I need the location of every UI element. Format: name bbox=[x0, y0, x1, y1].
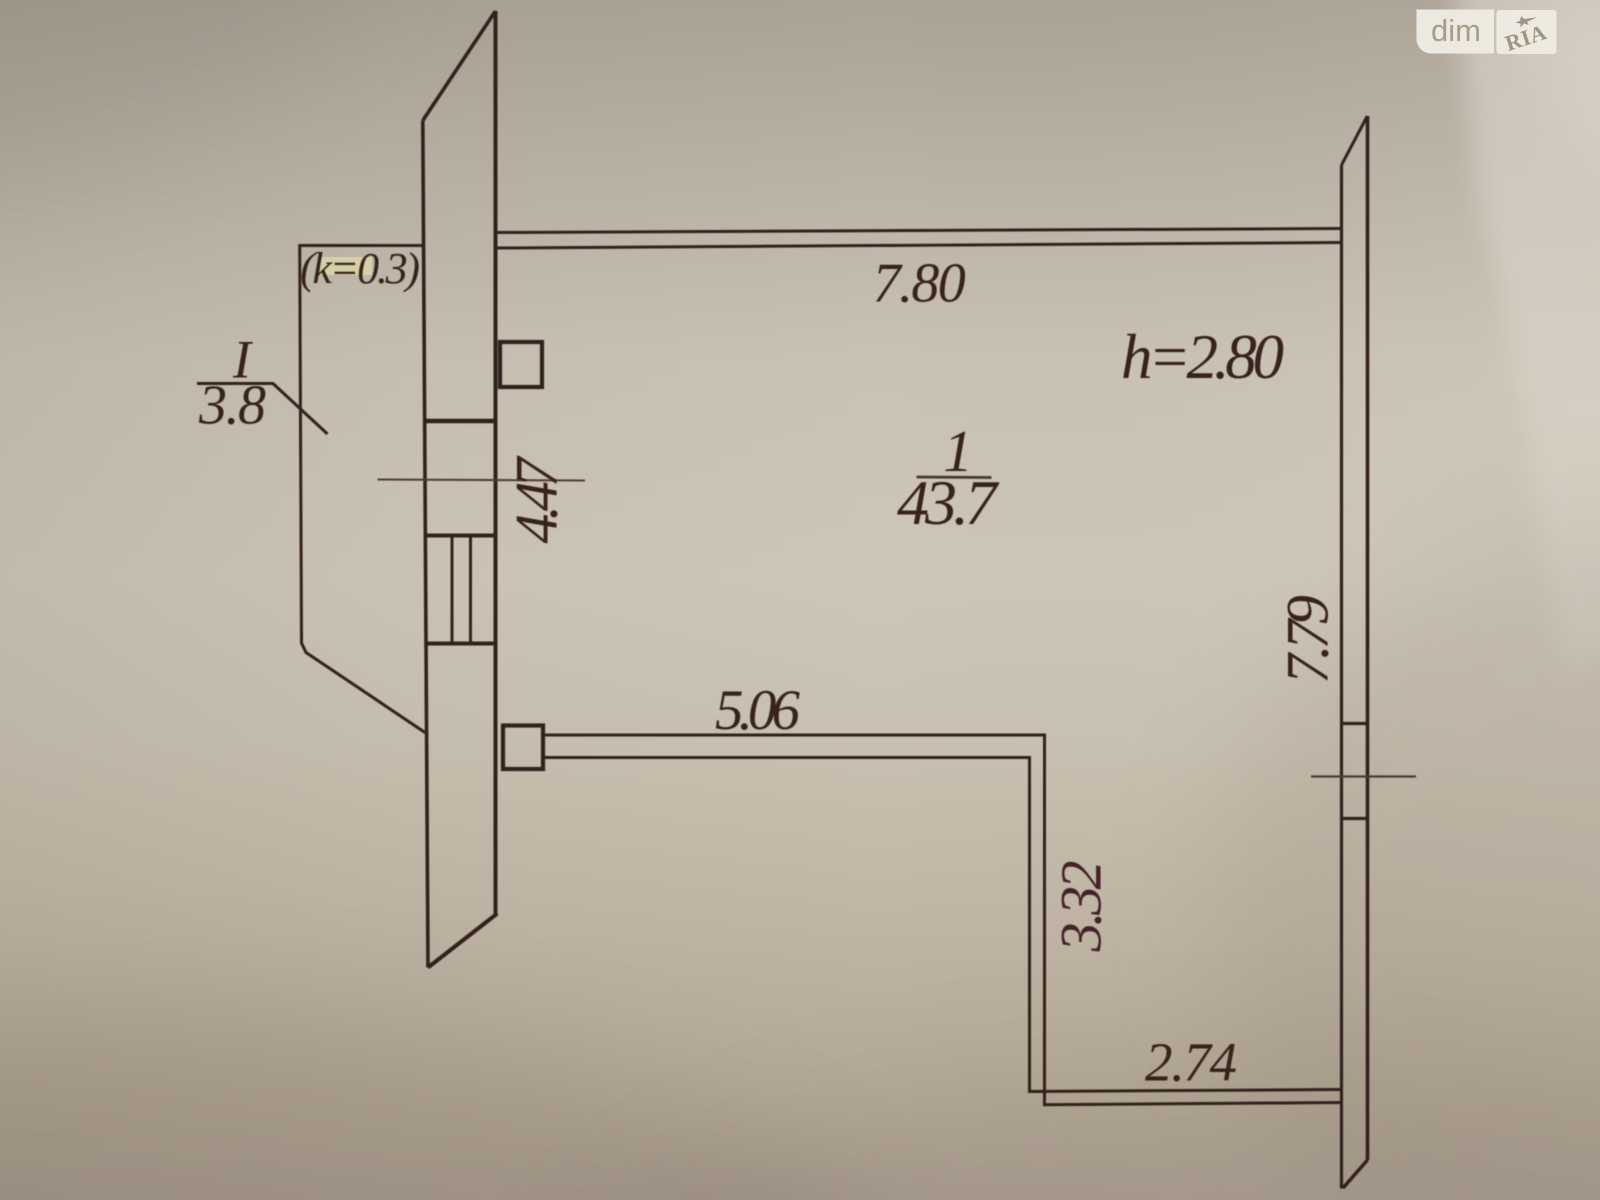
svg-text:3.32: 3.32 bbox=[1049, 861, 1114, 953]
svg-text:h=2.80: h=2.80 bbox=[1121, 322, 1284, 392]
svg-text:7.80: 7.80 bbox=[873, 253, 966, 315]
svg-text:7.79: 7.79 bbox=[1275, 595, 1341, 684]
svg-text:4.47: 4.47 bbox=[504, 455, 570, 544]
svg-text:dim: dim bbox=[1431, 13, 1481, 48]
svg-text:43.7: 43.7 bbox=[897, 467, 1000, 538]
svg-text:(k=0.3): (k=0.3) bbox=[300, 244, 420, 293]
svg-text:3.8: 3.8 bbox=[198, 375, 266, 437]
svg-text:5.06: 5.06 bbox=[715, 679, 801, 742]
svg-text:2.74: 2.74 bbox=[1145, 1032, 1237, 1093]
